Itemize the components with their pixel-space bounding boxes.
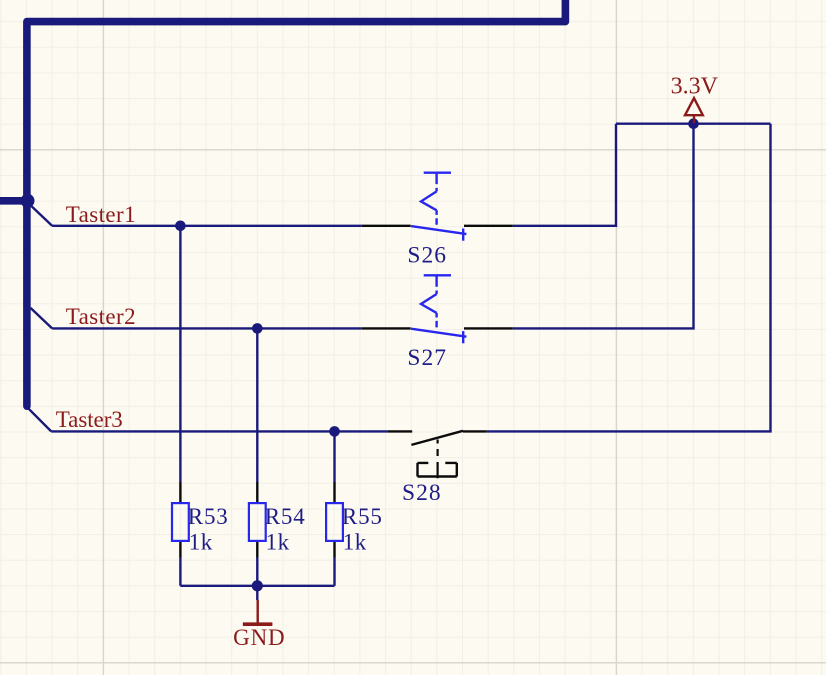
wire Taster1 right segment to 3.3V rail xyxy=(513,124,616,226)
wire Taster1 left segment xyxy=(52,225,362,227)
svg-text:S26: S26 xyxy=(407,243,446,269)
switch S28 xyxy=(411,431,463,479)
junction bottom rail / GND xyxy=(252,580,263,591)
pin S28 right xyxy=(463,430,487,432)
ground symbol xyxy=(243,600,272,624)
pin S28 left xyxy=(388,430,413,432)
svg-text:Taster1: Taster1 xyxy=(66,202,136,227)
resistor R53 xyxy=(172,503,189,541)
svg-text:R55: R55 xyxy=(342,504,382,529)
wire bottom ground rail xyxy=(180,585,334,587)
wire middle vertical down to Taster2 xyxy=(513,124,694,329)
bus entry to Taster3 xyxy=(28,408,51,431)
bus junction dot xyxy=(21,194,35,208)
svg-text:R54: R54 xyxy=(265,504,306,529)
pin R55 bottom xyxy=(333,541,335,558)
bus entry to Taster2 xyxy=(31,308,53,329)
bus: main vertical+top horizontal with exit stub at top xyxy=(27,0,566,406)
junction Taster1/R53 xyxy=(175,221,186,232)
wire right vertical down to Taster3 xyxy=(487,124,771,432)
wire R55 bottom to rail xyxy=(333,558,335,586)
wire drop from Taster3 to R55 xyxy=(333,431,335,482)
svg-text:1k: 1k xyxy=(343,529,367,554)
svg-text:S28: S28 xyxy=(402,480,441,506)
wire stub rail to GND symbol xyxy=(256,586,258,600)
wire drop from Taster1 to R53 xyxy=(179,226,181,482)
svg-text:1k: 1k xyxy=(266,529,290,554)
svg-text:Taster2: Taster2 xyxy=(66,304,136,329)
pin S26 right xyxy=(464,225,513,227)
svg-text:R53: R53 xyxy=(188,504,228,529)
resistor R54 xyxy=(249,503,266,541)
svg-text:Taster3: Taster3 xyxy=(56,407,123,432)
wire 3.3V top rail xyxy=(616,122,771,124)
pin S26 left xyxy=(362,225,411,227)
pin R54 top xyxy=(256,482,258,503)
wire R53 bottom to rail xyxy=(179,558,181,586)
svg-text:3.3V: 3.3V xyxy=(671,74,719,100)
junction Taster3/R55 xyxy=(329,426,340,437)
bus entry to Taster1 xyxy=(31,205,53,226)
bus stub entering from left edge xyxy=(0,197,27,205)
switch S26 xyxy=(411,173,466,241)
pin S27 right xyxy=(464,327,513,329)
pin R53 top xyxy=(179,482,181,503)
pin S27 left xyxy=(362,327,411,329)
switch S27 xyxy=(411,275,466,343)
pin R53 bottom xyxy=(179,541,181,558)
pin R54 bottom xyxy=(256,541,258,558)
junction Taster2/R54 xyxy=(252,323,263,334)
wire Taster2 left segment xyxy=(52,327,362,329)
svg-text:S27: S27 xyxy=(407,345,446,371)
power symbol 3.3V xyxy=(685,98,703,123)
svg-text:1k: 1k xyxy=(189,529,213,554)
wire Taster3 left segment xyxy=(51,430,387,432)
wire drop from Taster2 to R54 xyxy=(256,328,258,482)
pin R55 top xyxy=(333,482,335,503)
resistor R55 xyxy=(326,503,343,541)
svg-text:GND: GND xyxy=(233,625,285,650)
wire R54 bottom to rail xyxy=(256,558,258,586)
junction 3.3V rail xyxy=(688,118,699,129)
